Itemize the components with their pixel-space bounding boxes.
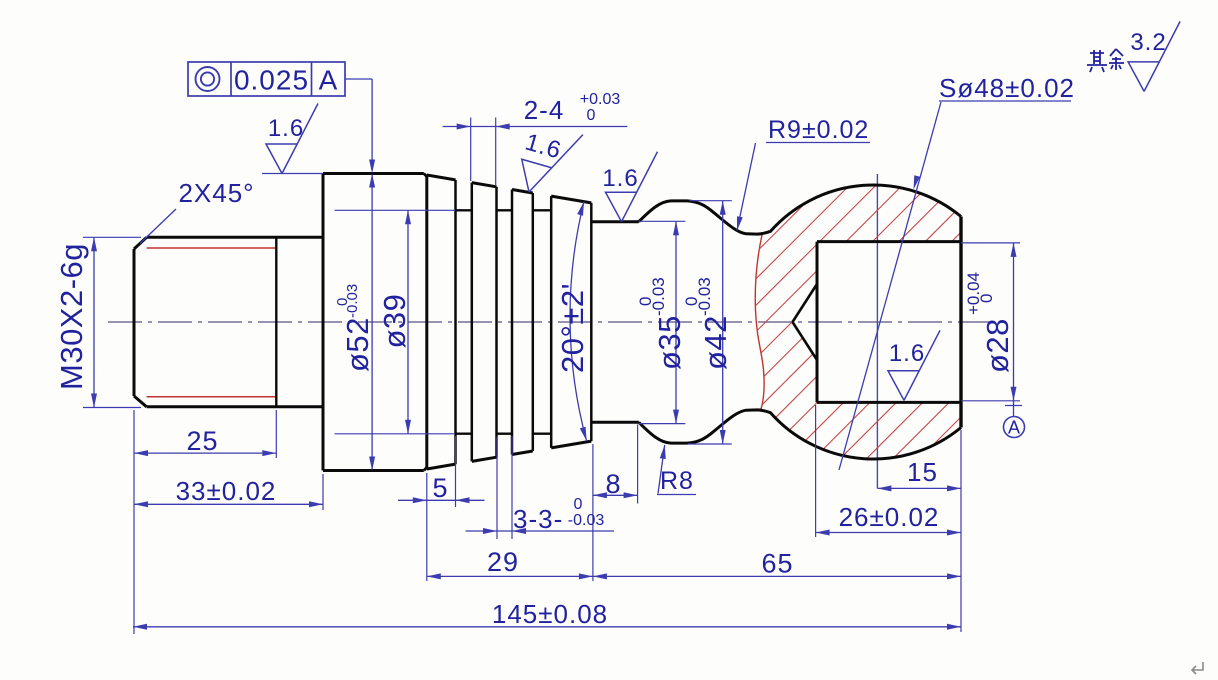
svg-text:-0.03: -0.03: [568, 512, 605, 529]
dim 25: [133, 410, 135, 634]
dim dia28 bore with tolerance: [961, 242, 1020, 244]
carriage return mark: [1192, 662, 1203, 674]
svg-text:ø35: ø35: [652, 315, 687, 370]
dim 33 +-0.02: [322, 474, 324, 510]
dim M30X2-6g thread: [83, 236, 141, 238]
thread minor dia line top (red): [147, 247, 277, 249]
dim dia39: [335, 209, 456, 211]
dim dia42 with tolerance: [690, 200, 732, 202]
svg-text:0: 0: [977, 294, 996, 303]
surface finish 1.6 on taper: [514, 120, 583, 202]
dim 8: [637, 425, 639, 504]
dim dia35 with tolerance: [639, 220, 686, 222]
datum symbol A: [1013, 401, 1015, 417]
svg-text:3.2: 3.2: [1130, 29, 1166, 56]
svg-text:29: 29: [487, 547, 519, 577]
svg-text:26±0.02: 26±0.02: [839, 502, 940, 532]
svg-text:1.6: 1.6: [522, 129, 564, 165]
svg-text:1.6: 1.6: [268, 115, 304, 142]
svg-text:-0.03: -0.03: [649, 277, 668, 316]
svg-text:5: 5: [432, 473, 448, 503]
svg-text:33±0.02: 33±0.02: [176, 476, 277, 506]
centerline horizontal axis: [108, 321, 997, 323]
svg-text:20°±2': 20°±2': [555, 283, 590, 373]
svg-text:65: 65: [761, 549, 793, 579]
svg-text:0: 0: [587, 107, 596, 124]
svg-text:145±0.08: 145±0.08: [492, 599, 608, 629]
dim 20 deg taper angle: [570, 202, 587, 442]
centerline sphere vertical: [876, 174, 878, 488]
dim 29: [427, 575, 593, 577]
svg-text:ø39: ø39: [377, 294, 412, 349]
svg-text:ø52: ø52: [340, 317, 375, 372]
dim 65: [593, 575, 961, 577]
svg-text:2X45°: 2X45°: [178, 178, 254, 208]
svg-text:ø28: ø28: [980, 318, 1015, 373]
dim 3-3 with tolerance: [496, 437, 498, 539]
surface finish 1.6 in bore: [888, 330, 940, 400]
svg-text:+0.04: +0.04: [964, 272, 983, 315]
surface finish 1.6 on flange: [262, 173, 323, 175]
svg-text:A: A: [319, 65, 339, 96]
dim dia52 with tolerance: [371, 175, 373, 469]
svg-text:3-3-: 3-3-: [513, 504, 563, 534]
svg-text:2-4: 2-4: [524, 95, 565, 125]
fcf leader to dia52: [345, 78, 372, 80]
feature control frame concentricity 0.025 A: [188, 62, 345, 96]
dim 2-4 +0.03 groove: [443, 126, 628, 128]
svg-text:1.6: 1.6: [889, 340, 925, 367]
svg-text:15: 15: [907, 457, 938, 487]
svg-text:-0.03: -0.03: [695, 277, 714, 316]
svg-text:0.025: 0.025: [234, 65, 309, 96]
dim 145 +-0.08: [133, 626, 961, 628]
svg-text:Sø48±0.02: Sø48±0.02: [939, 73, 1075, 103]
surface finish 1.6 on dia35: [606, 152, 658, 222]
label qiyu (rest) characters: [1087, 49, 1124, 72]
svg-text:1.6: 1.6: [602, 165, 638, 192]
svg-text:+0.03: +0.03: [580, 91, 621, 108]
svg-text:ø42: ø42: [698, 315, 733, 370]
dim 15: [960, 430, 962, 632]
svg-text:8: 8: [605, 469, 621, 499]
general roughness 3.2 (rest): [1128, 21, 1180, 91]
svg-text:A: A: [1008, 418, 1020, 438]
svg-text:25: 25: [186, 426, 218, 456]
svg-text:R8: R8: [660, 467, 694, 495]
section hatch boundary (red curve): [755, 235, 764, 411]
svg-text:0: 0: [574, 496, 583, 513]
svg-text:-0.03: -0.03: [344, 284, 361, 318]
svg-text:R9±0.02: R9±0.02: [768, 116, 869, 144]
svg-text:M30X2-6g: M30X2-6g: [54, 243, 89, 390]
dim 5: [426, 473, 428, 581]
dim 26 +-0.02: [815, 405, 817, 537]
thread minor dia line bottom (red): [147, 396, 277, 398]
